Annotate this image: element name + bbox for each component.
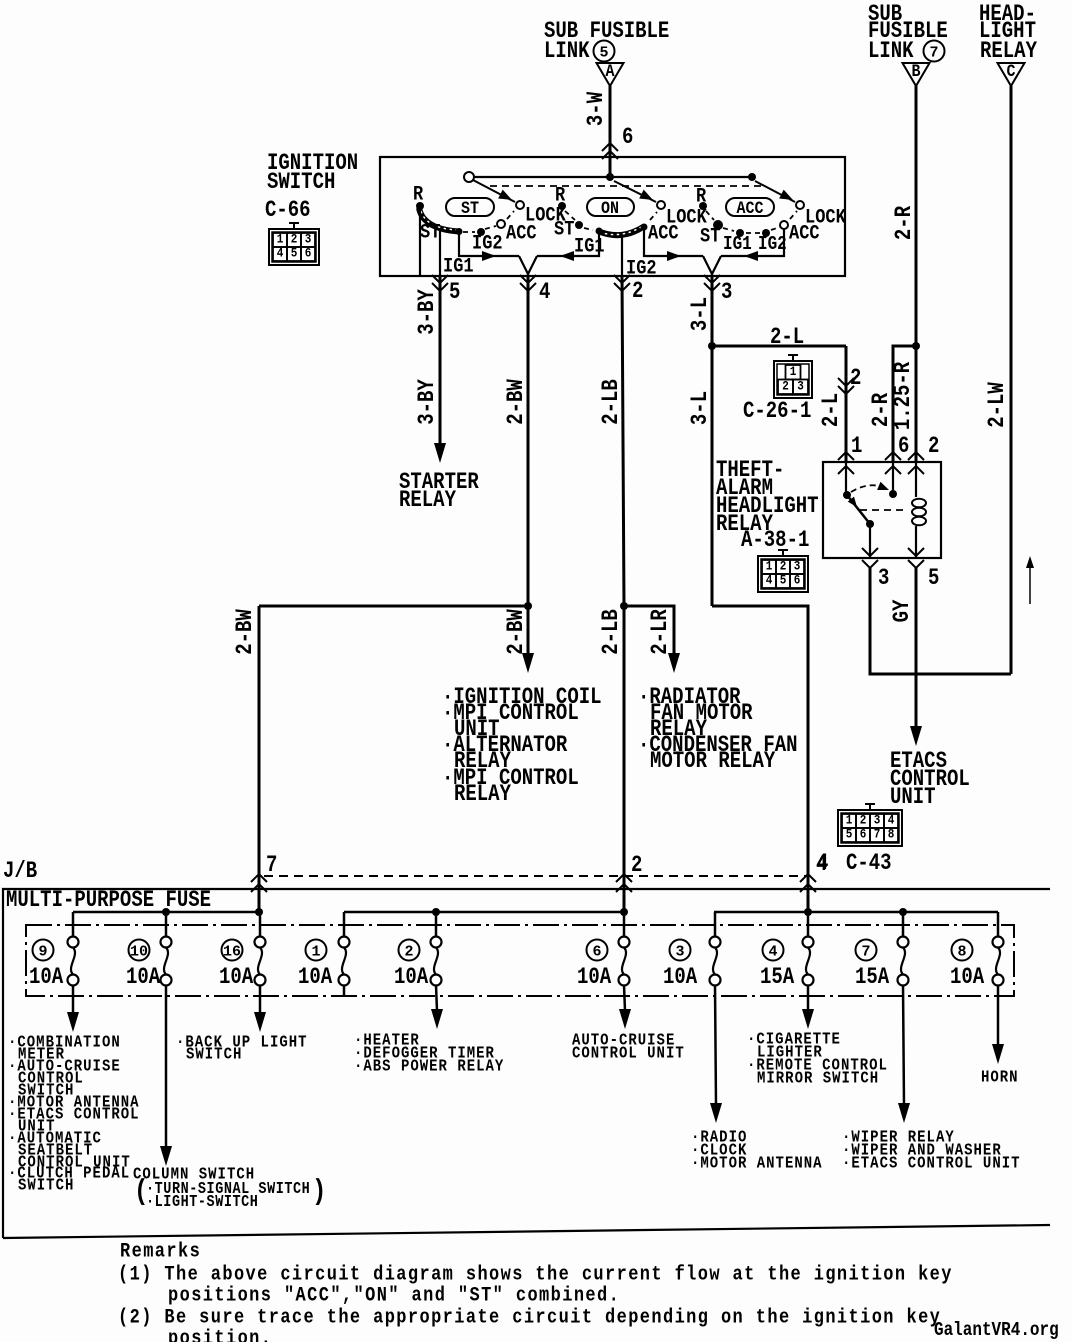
svg-text:2-L: 2-L xyxy=(770,326,804,351)
svg-text:2-BW: 2-BW xyxy=(505,379,530,425)
pin 2 marker on 2-L (C-26-1) xyxy=(838,367,861,394)
junction: 2-LB branch to 2-LR xyxy=(620,602,628,610)
svg-text:8: 8 xyxy=(957,943,966,960)
label 2-BW (stub) xyxy=(505,609,530,655)
contact: wiper end group1 xyxy=(456,228,463,235)
contact ACC (group3) xyxy=(780,221,788,229)
svg-text:ON: ON xyxy=(601,198,619,219)
fuse 4 15A xyxy=(760,912,814,991)
wire 2-BW left riser down to J/B xyxy=(258,606,261,912)
wire: switch common bus (top line) xyxy=(473,176,752,178)
svg-text:RELAY: RELAY xyxy=(454,783,511,808)
wire from fuse 16 with arrow xyxy=(254,985,266,1032)
contact: fixed (pin6) xyxy=(889,490,897,498)
load list fuse 3 (radio etc) xyxy=(691,1127,823,1173)
label C-43 xyxy=(846,852,892,877)
svg-text:3-BY: 3-BY xyxy=(416,289,441,335)
svg-text:MOTOR RELAY: MOTOR RELAY xyxy=(650,750,776,775)
dashed key-position line xyxy=(490,185,762,187)
pin 1 marker (relay) xyxy=(838,435,862,474)
dashed link IG2-ACC (group1) xyxy=(485,226,496,229)
svg-text:6: 6 xyxy=(898,435,909,460)
contact LOCK2 xyxy=(657,201,665,209)
svg-text:5: 5 xyxy=(928,567,939,592)
dashed link ACC-LOCK (group1) xyxy=(507,211,514,219)
dashed link ACC2-LOCK2 xyxy=(650,212,657,220)
wire: armature to relay pin3 xyxy=(869,524,871,558)
label 2-L (vertical) xyxy=(820,393,845,427)
wire from fuse 7 with arrow xyxy=(898,985,910,1123)
label IG1 (group2) xyxy=(574,234,605,258)
junction: 2-R split xyxy=(912,342,920,350)
svg-text:3: 3 xyxy=(305,232,312,247)
pin 2 marker at J/B xyxy=(616,854,642,892)
label LOCK (group2) xyxy=(666,205,707,229)
wire 2-LB (pin2) vertical to J/B xyxy=(622,276,624,912)
svg-text:9: 9 xyxy=(38,943,47,960)
wire 2-LW vertical from C xyxy=(1010,86,1013,674)
svg-text:2-R: 2-R xyxy=(893,206,918,241)
label LOCK (group1) xyxy=(525,203,566,227)
pin 7 marker at J/B xyxy=(251,854,277,892)
label 3-BY (lower) xyxy=(416,379,441,425)
wire: V drop to pin 4 xyxy=(519,256,537,276)
load list fuse 10 (column switch) xyxy=(133,1164,326,1211)
dashed link wiper-IG2 (group1) xyxy=(463,231,475,233)
svg-text:HORN: HORN xyxy=(981,1067,1019,1087)
svg-text:positions "ACC","ON" and "ST": positions "ACC","ON" and "ST" combined. xyxy=(168,1283,620,1307)
svg-text:3-L: 3-L xyxy=(689,391,714,425)
pin 2 marker (relay) xyxy=(908,435,939,474)
connector triangle A (SUB FUSIBLE LINK 5) xyxy=(544,20,669,86)
svg-text:1.25-R: 1.25-R xyxy=(892,361,917,430)
svg-text:UNIT: UNIT xyxy=(890,786,936,811)
load list fuse 6 (auto-cruise) xyxy=(572,1030,685,1063)
wire 3-W vertical from A to ignition switch xyxy=(609,86,612,177)
contact LOCK3 xyxy=(796,201,804,209)
contact: armature lower xyxy=(866,520,874,528)
contact IG1 (group3) xyxy=(736,229,744,237)
label GY xyxy=(891,599,916,622)
load list: ignition coil / MPI / alternator xyxy=(442,686,601,808)
fuse 3 10A xyxy=(663,912,721,991)
svg-text:2-BW: 2-BW xyxy=(505,609,530,655)
svg-text:position.: position. xyxy=(168,1326,272,1342)
fuse 9 10A xyxy=(29,912,79,991)
switch position label ST (stadium) xyxy=(446,198,494,219)
label C-66 xyxy=(265,199,311,224)
contact: open terminal left end of bus xyxy=(464,172,474,182)
label R (group3) xyxy=(696,184,707,208)
pin 5 marker xyxy=(432,275,460,306)
label R (group2) xyxy=(555,183,566,207)
fuse block inner dash-dot outline xyxy=(26,925,1014,996)
load list fuse 7 (wiper etc) xyxy=(842,1127,1021,1173)
svg-text:1: 1 xyxy=(766,559,773,574)
wire from fuse 1 (stub) xyxy=(343,985,346,996)
svg-text:2: 2 xyxy=(632,280,643,305)
pin 4 marker xyxy=(520,275,550,306)
label 2-BW (left riser) xyxy=(234,609,259,655)
relay coil xyxy=(912,462,926,558)
svg-text:4: 4 xyxy=(888,813,895,828)
svg-text:7: 7 xyxy=(929,44,938,61)
remarks text xyxy=(118,1239,953,1342)
switch position label ACC (stadium) xyxy=(726,198,774,219)
svg-text:5: 5 xyxy=(599,44,608,61)
switch position label ON (stadium) xyxy=(587,198,634,219)
current direction arrow beside 2-LW xyxy=(1026,556,1034,604)
svg-text:10A: 10A xyxy=(298,966,333,991)
svg-text:MULTI-PURPOSE FUSE: MULTI-PURPOSE FUSE xyxy=(6,889,211,914)
contact IG2 (group1) xyxy=(477,228,485,236)
pin 4 label at C-43 xyxy=(817,852,828,877)
svg-text:10A: 10A xyxy=(577,966,612,991)
svg-text:3: 3 xyxy=(675,943,684,960)
svg-text:·LIGHT-SWITCH: ·LIGHT-SWITCH xyxy=(146,1194,258,1211)
connector C-26-1 (3 pin) xyxy=(774,355,812,398)
wire: ACC3 bus left (to pin3) with arrow xyxy=(721,229,784,261)
wire from fuse 9 with arrow xyxy=(67,985,79,1032)
svg-text:J/B: J/B xyxy=(3,860,38,885)
svg-text:5: 5 xyxy=(291,246,298,261)
pin 6 marker on 3-W at ignition switch xyxy=(602,126,633,159)
svg-text:LINK: LINK xyxy=(544,40,590,65)
svg-text:IG2: IG2 xyxy=(758,234,787,256)
label ACC (group2) xyxy=(648,221,679,245)
svg-text:1: 1 xyxy=(851,435,862,460)
wire from fuse 2 with arrow xyxy=(431,985,443,1029)
wire from fuse 8 with arrow (horn) xyxy=(992,985,1004,1064)
svg-text:1: 1 xyxy=(846,813,853,828)
wire pin3 down and across to 2-LW xyxy=(870,568,1011,674)
svg-text:·MOTOR ANTENNA: ·MOTOR ANTENNA xyxy=(691,1153,823,1173)
wire 2-R vertical from B xyxy=(915,86,918,346)
svg-text:3: 3 xyxy=(721,281,732,306)
contact LOCK1 xyxy=(516,201,524,209)
svg-text:7: 7 xyxy=(266,854,277,879)
dashed link IG1-IG2 (group3) xyxy=(746,232,760,234)
svg-text:MIRROR SWITCH: MIRROR SWITCH xyxy=(757,1068,879,1088)
svg-text:·ETACS CONTROL UNIT: ·ETACS CONTROL UNIT xyxy=(842,1153,1021,1173)
svg-text:ST: ST xyxy=(554,217,574,241)
svg-text:GY: GY xyxy=(891,599,916,622)
fuse 2 10A xyxy=(394,912,442,991)
fuse 16 10A xyxy=(219,912,266,991)
label IGNITION SWITCH xyxy=(267,152,358,196)
label 1.25-R xyxy=(892,361,917,430)
fuse bus 3 (from pin4 3-L) xyxy=(714,908,998,916)
label THEFT-ALARM HEADLIGHT RELAY xyxy=(716,459,819,538)
wire 2-L horizontal xyxy=(712,345,846,348)
J/B boundary dashed line xyxy=(264,875,806,877)
svg-text:1: 1 xyxy=(277,232,284,247)
label C-26-1 xyxy=(743,400,811,425)
label IG2 (group3) xyxy=(758,234,787,256)
svg-text:ST: ST xyxy=(420,220,440,244)
wire 3-L (pin3) vertical xyxy=(711,276,714,606)
contact ACC (group1) xyxy=(497,220,505,228)
label 2-LW xyxy=(986,382,1011,428)
wire 2-LR branch with arrow xyxy=(624,606,680,673)
svg-text:C-66: C-66 xyxy=(265,199,311,224)
switch armature (relay) xyxy=(847,495,870,524)
svg-text:2-L: 2-L xyxy=(820,393,845,427)
junction: 3-W feed on bus xyxy=(606,173,614,181)
load list: radiator fan / condenser fan xyxy=(638,686,797,775)
fuse bus 2 (from pin2 2-LB) xyxy=(344,908,628,916)
wire: IG1 bus left (to pin4) with arrow xyxy=(459,233,519,261)
svg-text:16: 16 xyxy=(223,943,241,960)
contact R3 xyxy=(699,202,707,210)
svg-text:3: 3 xyxy=(797,379,804,394)
svg-text:4: 4 xyxy=(816,853,827,878)
svg-text:2: 2 xyxy=(782,379,789,394)
svg-text:10A: 10A xyxy=(394,966,429,991)
wire: relay pin1 to armature contact xyxy=(845,462,847,495)
svg-text:10: 10 xyxy=(130,943,148,960)
fuse bus 1 (from pin7 2-BW) xyxy=(73,908,263,916)
junction: 2-BW branch xyxy=(524,602,532,610)
svg-text:5: 5 xyxy=(846,827,853,842)
svg-text:RELAY: RELAY xyxy=(399,489,456,514)
wire: IG1 bus right (to pin4) with arrow xyxy=(537,233,599,261)
svg-text:2: 2 xyxy=(928,435,939,460)
dashed link ST3-IG1 xyxy=(723,228,734,231)
wire 2-BW arrow stub to ignition coil list xyxy=(522,606,534,673)
wire: R1 stub to box bottom xyxy=(419,210,421,275)
pin 2 marker xyxy=(614,275,643,305)
label IG2 (group1) xyxy=(472,231,503,255)
svg-text:15A: 15A xyxy=(760,966,795,991)
fuse 6 10A xyxy=(577,912,630,991)
svg-text:10A: 10A xyxy=(29,966,64,991)
wire: relay pin6 to fixed contact xyxy=(892,462,894,494)
pin 3 marker (relay bottom) xyxy=(862,548,889,592)
dashed link R2-ST2 xyxy=(565,211,575,220)
svg-text:GalantVR4.org: GalantVR4.org xyxy=(934,1320,1059,1342)
wire 2-BW (pin4) vertical xyxy=(527,276,530,606)
contact IG1 (group2) xyxy=(596,228,603,235)
dashed link ST2-wiper xyxy=(584,228,593,230)
fuse 8 10A xyxy=(950,912,1004,991)
label 2-R (branch) xyxy=(870,393,895,428)
label ETACS CONTROL UNIT xyxy=(890,750,970,811)
label MULTI-PURPOSE FUSE xyxy=(6,889,211,914)
label IG1 (group1) xyxy=(443,254,474,278)
svg-text:2-BW: 2-BW xyxy=(234,609,259,655)
wire from fuse 6 with arrow xyxy=(619,985,631,1029)
fuse 7 15A xyxy=(855,912,909,991)
label ST (group3) xyxy=(700,224,720,248)
svg-text:SWITCH: SWITCH xyxy=(267,171,335,196)
watermark GalantVR4.org xyxy=(934,1320,1059,1342)
connector C-66 (6 pin) xyxy=(269,223,319,265)
wire: diagonal to LOCK1 with arrow xyxy=(473,180,515,204)
label 2-LR xyxy=(649,609,674,655)
svg-text:A: A xyxy=(606,61,615,82)
svg-text:ACC: ACC xyxy=(789,221,820,245)
svg-text:6: 6 xyxy=(592,943,601,960)
label R (group1) xyxy=(413,182,424,206)
svg-text:7: 7 xyxy=(874,827,881,842)
load list fuse 4 (cigarette lighter etc) xyxy=(747,1029,888,1088)
svg-text:5: 5 xyxy=(780,573,787,588)
svg-text:3-W: 3-W xyxy=(585,92,610,127)
label J/B xyxy=(3,860,38,885)
label A-38-1 xyxy=(741,529,809,554)
connector triangle C (HEADLIGHT RELAY) xyxy=(979,3,1037,86)
svg-text:IG1: IG1 xyxy=(723,234,752,256)
wiper arc group2 (IG1 to ACC) xyxy=(598,227,643,235)
svg-text:(: ( xyxy=(134,1175,148,1208)
label 2-R (upper) xyxy=(893,206,918,241)
svg-text:1: 1 xyxy=(311,943,320,960)
svg-text:2-LR: 2-LR xyxy=(649,609,674,655)
label 3-BY (upper) xyxy=(416,289,441,335)
junction: 3-L to 2-L branch xyxy=(708,342,716,350)
svg-text:2: 2 xyxy=(860,813,867,828)
dashed link R3-ST3 xyxy=(706,211,714,220)
svg-text:6: 6 xyxy=(860,827,867,842)
wire from fuse 10 (to column switch) xyxy=(160,985,172,1166)
svg-text:6: 6 xyxy=(794,573,801,588)
dashed link IG2-ACC (group3) xyxy=(771,227,780,230)
dashed armature travel arc with arrow xyxy=(851,482,891,494)
label 3-L (upper) xyxy=(689,297,714,331)
svg-text:IG2: IG2 xyxy=(626,256,657,280)
svg-text:LINK: LINK xyxy=(868,40,914,65)
wire 2-R branch to relay pin6 xyxy=(893,346,916,462)
contact: armature pivot xyxy=(843,491,851,499)
connector A-38-1 (6 pin) xyxy=(758,550,808,592)
svg-text:7: 7 xyxy=(861,943,870,960)
wire 2-L drop to relay pin1 xyxy=(845,346,848,462)
label STARTER RELAY xyxy=(399,471,479,514)
svg-text:2-LW: 2-LW xyxy=(986,382,1011,428)
multi-purpose fuse box outline xyxy=(3,889,1050,1238)
connector C-43 (8 pin) xyxy=(838,804,902,846)
pin 6 marker (relay) xyxy=(885,435,909,474)
svg-text:2: 2 xyxy=(291,232,298,247)
wiper arc group1 (R to ST contact) xyxy=(419,208,459,232)
svg-text:3: 3 xyxy=(874,813,881,828)
wire 3-L lower run to J/B pin4 xyxy=(712,606,808,912)
label ACC (group3) xyxy=(789,221,820,245)
svg-text:2-LB: 2-LB xyxy=(600,609,625,655)
svg-text:2: 2 xyxy=(631,854,642,879)
junction: right end of bus xyxy=(748,173,756,181)
svg-text:10A: 10A xyxy=(663,966,698,991)
wire: pin2 drop from wiper arc (IG2) xyxy=(621,237,623,276)
label 2-BW (on pin4 wire) xyxy=(505,379,530,425)
svg-text:Remarks: Remarks xyxy=(120,1239,201,1263)
contact ACC (group2) xyxy=(641,224,648,231)
svg-text:1: 1 xyxy=(790,364,797,379)
label 2-L (horizontal) xyxy=(770,326,804,351)
wire GY from relay pin5 to ETACS xyxy=(910,568,922,746)
pin 4 marker at J/B xyxy=(800,853,827,892)
wire from fuse 3 with arrow xyxy=(710,985,722,1123)
svg-text:ACC: ACC xyxy=(737,198,764,219)
svg-text:C: C xyxy=(1007,61,1016,82)
svg-text:A-38-1: A-38-1 xyxy=(741,529,809,554)
svg-text:8: 8 xyxy=(888,827,895,842)
dashed link ACC3-LOCK3 xyxy=(790,211,797,219)
fuse 1 10A xyxy=(298,912,350,991)
load HORN (fuse 8) xyxy=(981,1067,1019,1087)
label 3-W xyxy=(585,92,610,127)
svg-text:2: 2 xyxy=(404,943,413,960)
svg-text:4: 4 xyxy=(539,281,550,306)
svg-text:CONTROL UNIT: CONTROL UNIT xyxy=(572,1043,685,1063)
connector triangle B (SUB FUSIBLE LINK 7) xyxy=(868,3,948,86)
label IG2 (group2, at pin2) xyxy=(626,256,657,280)
svg-text:4: 4 xyxy=(277,246,284,261)
contact R1 xyxy=(416,202,424,210)
svg-text:10A: 10A xyxy=(126,966,161,991)
label ST (group2) xyxy=(554,217,574,241)
wire: V drop to pin 3 xyxy=(703,256,721,276)
contact ST2 xyxy=(575,221,583,229)
svg-text:15A: 15A xyxy=(855,966,890,991)
ignition switch box outline xyxy=(380,157,845,276)
wire 2-BW horizontal to left riser xyxy=(259,605,528,608)
svg-text:6: 6 xyxy=(305,246,312,261)
svg-text:2: 2 xyxy=(850,367,861,392)
contact ST3 xyxy=(713,220,723,230)
svg-text:C-43: C-43 xyxy=(846,852,892,877)
svg-text:3-L: 3-L xyxy=(689,297,714,331)
svg-text:IG2: IG2 xyxy=(472,231,503,255)
contact R2 xyxy=(558,202,566,210)
svg-text:SWITCH: SWITCH xyxy=(18,1175,74,1195)
svg-text:ACC: ACC xyxy=(506,221,537,245)
fuse 10 10A xyxy=(126,912,172,991)
load list fuse 2 (heater etc) xyxy=(354,1030,504,1076)
wire 3-BY (pin5) with arrow to starter relay xyxy=(434,276,446,463)
contact IG2 (group3) xyxy=(762,229,770,237)
svg-text:10A: 10A xyxy=(219,966,254,991)
svg-text:3-BY: 3-BY xyxy=(416,379,441,425)
wire: ACC bus left (to pin3) with arrow xyxy=(644,229,703,261)
wire: diagonal to LOCK3 with arrow xyxy=(755,181,795,204)
label 2-LB (upper) xyxy=(600,379,625,425)
pin 3 marker xyxy=(704,275,732,306)
theft-alarm headlight relay box xyxy=(823,462,941,558)
load list fuse 9 (combination meter etc) xyxy=(8,1032,140,1195)
svg-text:4: 4 xyxy=(766,573,773,588)
svg-text:C-26-1: C-26-1 xyxy=(743,400,811,425)
svg-text:6: 6 xyxy=(622,126,633,151)
svg-text:): ) xyxy=(312,1175,326,1208)
wire 1.25-R to relay pin2 xyxy=(915,346,918,462)
svg-text:ST: ST xyxy=(461,198,479,219)
label 3-L (lower) xyxy=(689,391,714,425)
svg-text:·ABS POWER RELAY: ·ABS POWER RELAY xyxy=(354,1056,504,1076)
svg-text:5: 5 xyxy=(449,281,460,306)
svg-text:B: B xyxy=(912,61,921,82)
wire: diagonal to LOCK2 with arrow xyxy=(614,181,656,204)
dashed mechanical link to coil xyxy=(860,509,908,511)
svg-text:3: 3 xyxy=(878,567,889,592)
label IG1 (group3) xyxy=(723,234,752,256)
load list fuse 16 (back up light switch) xyxy=(176,1032,308,1064)
wire from fuse 4 with arrow xyxy=(802,985,814,1029)
wire: pin5 drop from wiper arc xyxy=(439,230,441,276)
label 2-LB (lower) xyxy=(600,609,625,655)
svg-text:2-LB: 2-LB xyxy=(600,379,625,425)
